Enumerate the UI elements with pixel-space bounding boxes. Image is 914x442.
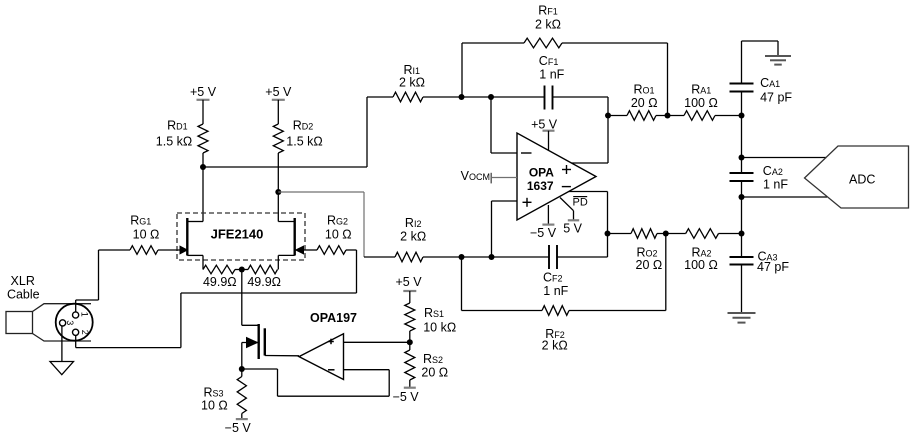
svg-text:RD2: RD2 [293, 119, 314, 133]
svg-text:CF1: CF1 [539, 54, 559, 68]
svg-text:1 nF: 1 nF [539, 68, 564, 82]
svg-text:RS1: RS1 [424, 306, 444, 320]
svg-text:20 Ω: 20 Ω [636, 258, 663, 272]
svg-text:10 Ω: 10 Ω [325, 227, 352, 241]
svg-text:+5 V: +5 V [395, 275, 422, 289]
svg-text:1: 1 [80, 312, 90, 317]
svg-text:CF2: CF2 [543, 271, 563, 285]
svg-text:RA1: RA1 [691, 82, 711, 96]
svg-text:5 V: 5 V [563, 222, 582, 236]
svg-text:CA1: CA1 [760, 76, 780, 90]
svg-text:10 kΩ: 10 kΩ [423, 321, 456, 335]
svg-text:1 nF: 1 nF [763, 178, 788, 192]
svg-text:100 Ω: 100 Ω [684, 258, 718, 272]
svg-text:2 kΩ: 2 kΩ [399, 76, 425, 90]
svg-text:ADC: ADC [849, 173, 875, 187]
svg-text:47 pF: 47 pF [760, 90, 792, 104]
svg-text:VOCM: VOCM [461, 169, 490, 183]
svg-text:1 nF: 1 nF [543, 284, 568, 298]
svg-text:OPA: OPA [529, 166, 554, 180]
svg-text:RG1: RG1 [130, 213, 151, 227]
svg-text:CA2: CA2 [763, 164, 783, 178]
svg-text:JFE2140: JFE2140 [211, 226, 264, 241]
svg-text:RG2: RG2 [327, 213, 348, 227]
svg-text:1.5 kΩ: 1.5 kΩ [156, 135, 192, 149]
svg-text:OPA197: OPA197 [310, 311, 357, 325]
svg-text:100 Ω: 100 Ω [684, 96, 718, 110]
svg-text:RD1: RD1 [167, 119, 188, 133]
svg-text:2 kΩ: 2 kΩ [535, 18, 561, 32]
svg-text:47 pF: 47 pF [757, 260, 789, 274]
svg-text:RS3: RS3 [204, 386, 224, 400]
svg-text:RS2: RS2 [423, 352, 443, 366]
svg-text:2 kΩ: 2 kΩ [400, 229, 426, 243]
svg-text:−5 V: −5 V [530, 226, 557, 240]
svg-text:3: 3 [65, 320, 75, 325]
svg-text:10 Ω: 10 Ω [201, 399, 228, 413]
svg-text:−5 V: −5 V [225, 421, 252, 435]
svg-text:−5 V: −5 V [393, 390, 420, 404]
svg-text:1637: 1637 [527, 179, 554, 193]
svg-text:RO1: RO1 [633, 82, 654, 96]
svg-text:Cable: Cable [7, 288, 40, 302]
svg-text:+5 V: +5 V [265, 85, 292, 99]
svg-text:RI2: RI2 [405, 216, 422, 230]
svg-text:PD: PD [573, 197, 588, 209]
svg-text:20 Ω: 20 Ω [421, 365, 448, 379]
svg-text:49.9Ω: 49.9Ω [203, 275, 237, 289]
svg-text:RF1: RF1 [538, 4, 558, 18]
svg-text:49.9Ω: 49.9Ω [247, 275, 281, 289]
svg-text:20 Ω: 20 Ω [631, 96, 658, 110]
svg-text:10 Ω: 10 Ω [133, 227, 160, 241]
svg-text:+5 V: +5 V [190, 85, 217, 99]
svg-text:XLR: XLR [11, 274, 35, 288]
svg-text:2: 2 [80, 330, 90, 335]
svg-text:2 kΩ: 2 kΩ [542, 338, 568, 352]
svg-text:1.5 kΩ: 1.5 kΩ [286, 135, 322, 149]
